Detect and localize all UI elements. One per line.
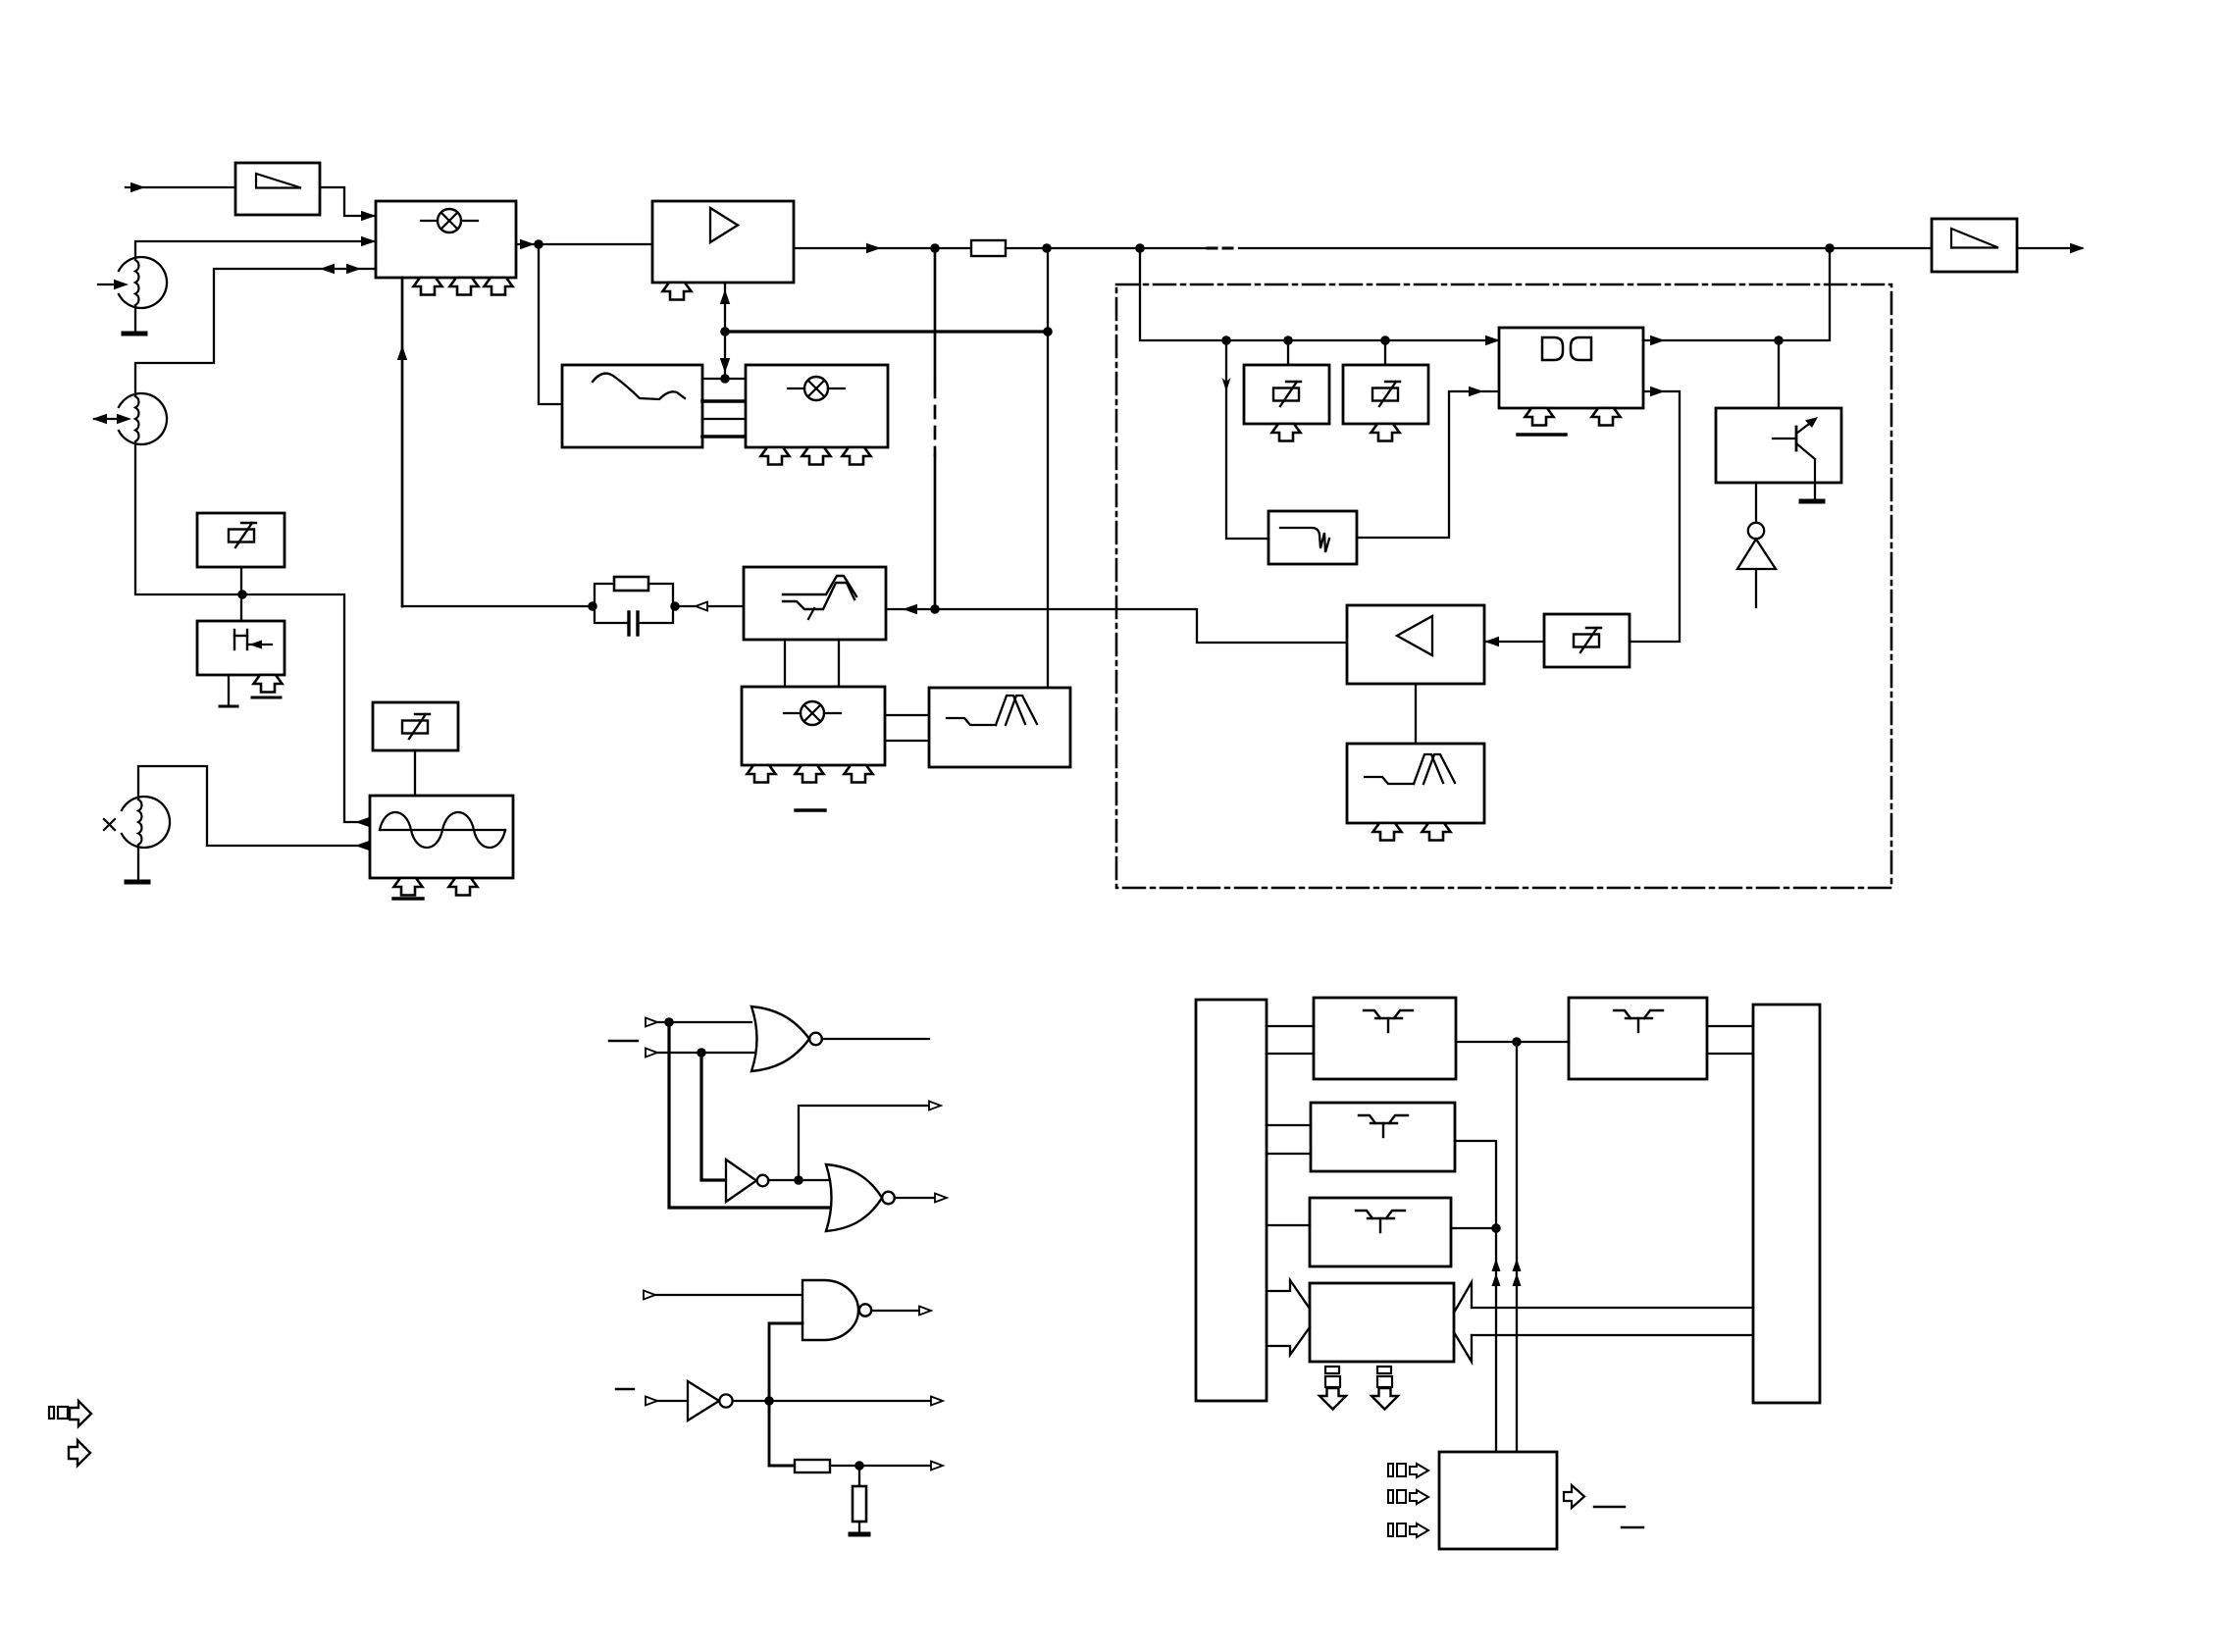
wire node F down (with break) [934,248,937,609]
node T junction [764,1396,774,1406]
bandpass filter Z2 [929,688,1070,767]
wire node U to resistor R4 [858,1466,860,1486]
X mark at J3 [104,819,115,830]
attenuator A2 (RX output) [1932,219,2017,272]
coil connector J2 bidirectional arrow [92,414,131,424]
control input arrows of U2 [761,447,871,465]
driver box D3 [1314,998,1456,1079]
mixer U1 [376,201,516,278]
driver box Q1 with transistor [1716,408,1841,483]
dashed break on main line [1208,247,1237,250]
main line R1 to output [1006,247,1206,249]
inverter buffer below Q1 [1737,483,1776,607]
main line continuation [1239,247,1932,249]
wire DD3 to NOR DD2 [768,1179,836,1181]
control input arrows of G1 [394,878,478,896]
dash mark near input 2 [609,1040,638,1042]
node W junction [1491,1223,1501,1233]
node S junction [794,1175,803,1185]
varactor box B5 [1343,365,1428,424]
wire J3 to oscillator G1 [138,766,370,851]
DD5 output port [733,1397,943,1406]
varactor box B3 [373,702,458,750]
underline mark below U3 [796,808,825,811]
serial input symbol 2 [1388,1490,1428,1504]
DD2 output port [895,1194,947,1203]
wire riser to mixer U1 LO [397,278,407,606]
wire N2 bottom to bandpass Z5 [1415,684,1417,744]
wire node D to bandpass Z2 [1047,248,1049,688]
wire node C to bandpass Z2 [725,330,1048,333]
node A junction [237,590,247,599]
wire node P to driver box Q1 [1778,340,1780,408]
wire node O to varactor B5 [1384,340,1386,365]
coil connector J2 [119,393,167,444]
node B junction [534,239,543,249]
legend dc-control symbol [69,1440,90,1466]
wire RC to limiter Z3 [675,602,744,611]
inverter DD3 [726,1160,768,1202]
node D junction [1043,327,1053,336]
wires D2 to D4 [1267,1125,1311,1154]
logic output port 2 [799,1102,941,1181]
node H junction [1135,243,1145,253]
wire mixer U1 to amplifier N1 [516,239,652,249]
wire B6 to amplifier N2 [1484,637,1544,646]
notch filter Z4 [1268,511,1357,564]
varactor box B1 [197,513,285,567]
resistor R1 on main line [971,240,1006,256]
wire node T to resistor R3 [769,1401,795,1466]
node K junction [588,601,597,611]
wire D1 output to node I riser [1643,248,1830,345]
serial output arrow of D9 [1564,1485,1584,1508]
control input arrows of U3 [748,765,873,783]
control input arrow of N1 [663,283,692,300]
node R junction [697,1048,706,1058]
node M junction [1221,336,1231,345]
wire node V down to serial box [1516,1042,1518,1452]
wires D2 to D3 [1267,1026,1314,1054]
wire B3 to G1 [414,750,416,796]
control input arrow of B5 [1371,424,1400,441]
TX input wire [126,182,235,192]
up arrows on bus line 1 [1492,1259,1501,1286]
coil connector J3 [122,797,170,848]
dash mark 1 right of D9 [1594,1506,1625,1508]
resistor R2 [614,577,648,591]
control input arrows of Z5 [1373,823,1451,841]
logic input port 3 [644,1291,802,1300]
node P junction [1774,336,1784,345]
up arrows on bus line 2 [1513,1259,1522,1286]
bidirectional wire N1 to Z1/U2 node [720,283,730,379]
wire node R to inverter DD3 [701,1053,726,1180]
oscillator G1 [370,796,513,878]
coil connector J1 [119,257,167,308]
varactor box B4 [1244,365,1329,424]
varactor box B6 [1544,614,1630,667]
register column box D2 [1196,1000,1267,1401]
connector lines U3 to bandpass Z2 [885,715,929,741]
wire node N to varactor B4 [1287,340,1289,365]
feedback wire from PLL into Z3 [886,604,1347,643]
coil connector J1 input arrow [98,280,129,289]
node C junction [720,327,730,336]
wire B1 to node A [240,567,242,594]
control input arrows of D1 [1526,408,1621,426]
amplifier N1 [652,201,794,283]
wire node Q to NOR DD2 [669,1022,832,1208]
node V junction [1512,1037,1522,1047]
ground of Q1 [1801,483,1823,501]
limiter Z3 [744,567,886,640]
bandpass filter Z5 [1347,744,1484,823]
underline mark below G1 arrow [393,897,423,900]
wire D5 output [1451,1227,1496,1229]
main output line of N1 [794,243,971,253]
node O junction [1380,336,1390,345]
wire node A to B2 [240,594,242,621]
driver box D5 [1310,1198,1451,1266]
NOR gate DD2 [826,1164,895,1231]
RC network frame [595,584,673,623]
wires D6 to register column D7 [1707,1026,1753,1054]
underline mark below B2 arrow [252,697,281,699]
NAND gate DD4 [802,1280,871,1340]
wire J1 to mixer U1 input [135,236,376,258]
driver box D4 [1311,1103,1455,1171]
serial-control out symbol 1 below D8 [1319,1367,1346,1410]
wire node H into PLL [1140,248,1500,345]
resistor R4 [853,1486,866,1522]
underline mark below D1 [1518,433,1566,436]
PLL section boundary (dash-dot box) [1116,284,1891,888]
mixer U2 [746,365,888,447]
node N junction [1283,336,1293,345]
wire J2 to node A [135,443,242,594]
feedback wire to RC [402,605,593,607]
wire node B to lowpass filter Z1 [539,244,562,404]
driver box D6 [1569,998,1707,1079]
wire Z4 to phase detector D1 [1357,387,1500,538]
node L junction [670,601,680,611]
amplifier N2 [1347,605,1484,684]
wire node A to oscillator G1 [242,594,370,827]
wire node M to notch filter Z4 [1222,340,1269,539]
wire D1 lower output to varactor B6 [1630,387,1680,642]
diode symbol in B2 [234,630,272,649]
serial input symbol 1 [1388,1464,1428,1477]
lowpass filter Z1 [562,365,702,447]
DD4 output port [871,1307,931,1316]
wire mixer U1 bidirectional port to J2 [135,264,376,396]
capacitor C1 [629,612,638,635]
diode box B2 [197,621,285,675]
node U junction [854,1461,864,1471]
resistor R3 [795,1460,830,1472]
bus lines from D7 [1472,1308,1753,1335]
wire D4 output down [1455,1141,1496,1452]
RX output arrow [2017,243,2085,253]
wire D3 to D6 [1456,1041,1569,1043]
attenuator A1 (TX) [235,163,320,215]
phase detector D1 [1499,328,1643,408]
mixer U3 [742,687,885,765]
dash mark 2 right of D9 [1622,1526,1643,1528]
inverter DD5 [688,1381,733,1420]
bus arrow from D2 to D8 [1267,1280,1310,1355]
wire R3 to output port [830,1462,943,1471]
wire attenuator A1 to mixer U1 [320,187,376,221]
node G junction [1042,243,1052,253]
node E junction [720,374,730,384]
ground of J1 [124,307,145,334]
wire Z3 to mixer U3 [785,640,839,687]
ground of R4 [851,1522,868,1534]
shift register box D8 [1310,1283,1454,1362]
logic input port 4 [646,1397,688,1406]
serial-control out symbol 2 below D8 [1371,1367,1398,1410]
bus arrow into D8 [1454,1282,1472,1362]
serial interface box D9 [1439,1452,1557,1549]
ground of J3 [127,846,148,882]
logic input port 2 [646,1049,757,1058]
connector lines Z1 to mixer U2 [702,379,746,437]
terminal bar below B2 [220,675,237,706]
control input arrow of B2 [254,675,283,693]
node Q junction [664,1017,674,1027]
control input arrows of U1 [414,278,513,295]
node I junction [1825,243,1835,253]
control input arrow of B4 [1272,424,1301,441]
DD1 output wire [822,1038,929,1040]
node F junction [930,243,940,253]
dash mark near input 4 [616,1388,634,1390]
logic input port 1 [646,1018,751,1027]
wire node T to NAND DD4 [769,1323,802,1401]
register column box D7 [1753,1005,1820,1403]
legend serial-control symbol [49,1401,91,1426]
wire D2 to D5 [1267,1224,1310,1226]
node J junction [930,604,940,614]
NOR gate DD1 [751,1007,822,1071]
serial input symbol 3 [1388,1523,1428,1537]
